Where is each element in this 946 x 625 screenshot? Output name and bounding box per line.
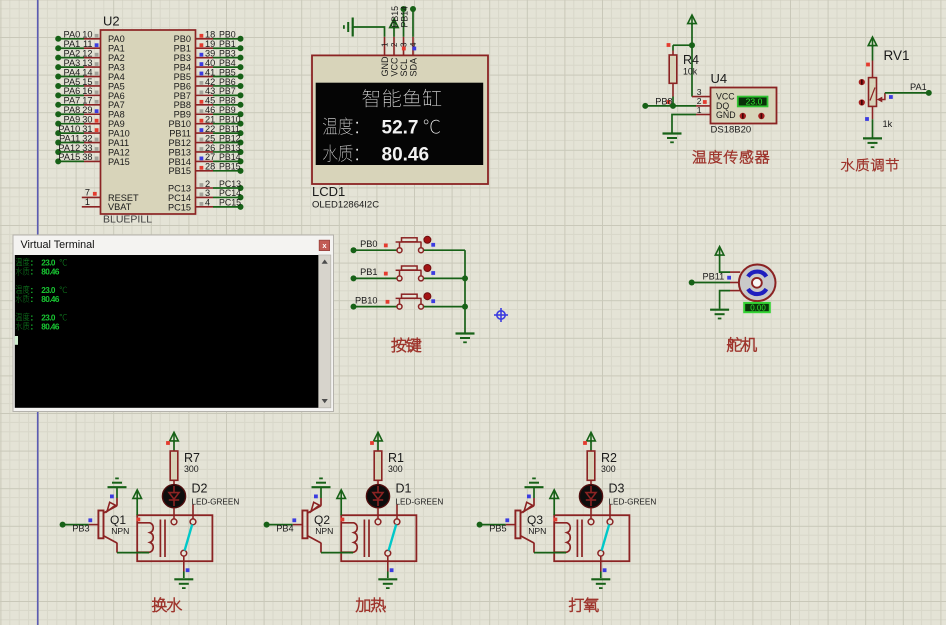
- U4 terminal blob 1: [740, 113, 746, 119]
- svg-text:PC15: PC15: [219, 198, 241, 208]
- state square (relay common): [390, 568, 394, 572]
- state square + pin number 46 + net label PB9: [200, 109, 204, 113]
- wire RV1 bottom to ground: [872, 106, 874, 119]
- wire servo pin3 to ground: [730, 290, 740, 292]
- state square + pin number 40 + net label PB4: [200, 62, 204, 66]
- relay box (打氧): [554, 515, 629, 561]
- pin stub PB8 pin 45: [196, 104, 214, 106]
- svg-text:U2: U2: [103, 14, 120, 29]
- pin VBAT (1) of U2: [82, 206, 101, 208]
- svg-text:PB1: PB1: [360, 267, 377, 277]
- state square pin4: [412, 47, 416, 51]
- svg-text:10k: 10k: [683, 67, 698, 77]
- state square + pin number 28 + net label PB15: [200, 166, 204, 170]
- state square + pin number 22 + net label PB11: [200, 128, 204, 132]
- ground (buttons): [456, 334, 475, 343]
- power +V arrow (temp sensor rail): [688, 15, 697, 24]
- ground (servo): [710, 310, 729, 319]
- svg-text:D2: D2: [192, 482, 208, 496]
- wire +V to R1: [377, 441, 379, 451]
- transistor Q3 collector (down): [521, 536, 535, 543]
- state square (relay coil top): [554, 518, 558, 522]
- U4 temperature display 23.0: [738, 97, 768, 107]
- relay contact circles: [375, 519, 381, 525]
- pin stub PB0 pin 18: [196, 38, 214, 40]
- svg-text:PB4: PB4: [276, 524, 293, 534]
- pin stub PB13 pin 26: [196, 151, 214, 153]
- LED D1 body: [366, 485, 389, 508]
- svg-text:23.0: 23.0: [41, 313, 56, 322]
- svg-text:LED-GREEN: LED-GREEN: [192, 497, 240, 506]
- wire net PB11 to servo pin2: [692, 282, 730, 284]
- power +V arrow at LCD pin2: [390, 19, 399, 28]
- power +V arrow (R1): [374, 432, 383, 441]
- state square (Q2 emitter net): [314, 495, 318, 499]
- pin stub PB12 pin 25: [196, 142, 214, 144]
- svg-text:PA1: PA1: [910, 82, 927, 92]
- wire collector to relay coil: [534, 552, 566, 554]
- pin stub PA9 pin 30: [84, 123, 101, 125]
- ground (temp sensor): [663, 134, 682, 143]
- wire net PB7 (right of U2): [213, 94, 241, 96]
- wire net PB5 to Q3 base: [480, 524, 506, 526]
- svg-text:23.0: 23.0: [41, 259, 56, 268]
- pin stub PC14 pin 3: [196, 196, 214, 198]
- pin stub PC15 pin 4: [196, 206, 214, 208]
- state square (PB4): [292, 518, 296, 522]
- pin stub PC13 pin 2: [196, 187, 214, 189]
- wire net PB12 (right of U2): [213, 142, 241, 144]
- svg-text:GND: GND: [716, 110, 736, 120]
- wire net PA1 from wiper: [885, 92, 929, 94]
- relay core bars: [159, 520, 161, 558]
- wire D1 to relay NO contact: [377, 508, 379, 519]
- wire net PB10 (right of U2): [213, 123, 241, 125]
- state square (PB8 net): [667, 100, 671, 104]
- state square pin3: [402, 47, 406, 51]
- svg-text:23.0: 23.0: [41, 286, 56, 295]
- wire net PB13 (right of U2): [213, 151, 241, 153]
- state square (RV1 top): [866, 63, 870, 67]
- state square (relay coil top): [137, 518, 141, 522]
- ground (RV1): [863, 138, 882, 147]
- relay box (加热): [341, 515, 416, 561]
- svg-text:1: 1: [697, 105, 702, 115]
- label 温度传感器: [693, 150, 769, 163]
- wire net PA9 (left of U2): [58, 123, 84, 125]
- state square + pin number 21 + net label PB10: [200, 119, 204, 123]
- push button PB1: actuator bar and cap: [396, 269, 422, 271]
- svg-text:PB5: PB5: [489, 524, 506, 534]
- wire net PB4 (right of U2): [213, 66, 241, 68]
- svg-text:RV1: RV1: [884, 48, 910, 63]
- state square (R7 top): [166, 441, 170, 445]
- terminal cursor: [15, 336, 18, 345]
- LED D3 body: [579, 485, 602, 508]
- svg-text:23.0: 23.0: [746, 96, 763, 106]
- pin stub PA0 pin 10: [84, 38, 101, 40]
- LED D2 body: [162, 485, 185, 508]
- state square (PB1): [384, 272, 388, 276]
- power +V arrow (servo): [715, 247, 724, 256]
- svg-text:38: 38: [82, 152, 92, 162]
- LCD line3 text 水质: 80.46: [323, 145, 358, 162]
- relay blade (cyan): [602, 524, 610, 550]
- svg-text:52.7: 52.7: [382, 117, 419, 138]
- transistor Q2 collector (down): [308, 536, 322, 543]
- relay blade (cyan): [389, 524, 397, 550]
- state square + pin number 43 + net label PB7: [200, 91, 204, 95]
- pin stub PB3 pin 39: [196, 57, 214, 59]
- svg-text:U4: U4: [711, 71, 728, 86]
- power +V arrow (RV1): [868, 37, 877, 46]
- wire net PB4 to Q2 base: [267, 524, 293, 526]
- push button PB0: contacts: [397, 248, 402, 253]
- wire net PB0 (right of U2): [213, 38, 241, 40]
- relay NC stub (up out of box): [609, 505, 611, 519]
- power +V arrow (relay coil): [133, 490, 142, 499]
- state square + pin number 2 + net label PC13: [200, 183, 204, 187]
- svg-text:R4: R4: [683, 53, 699, 67]
- wire R2 to D3: [590, 480, 592, 485]
- svg-text:NPN: NPN: [315, 526, 333, 536]
- pin stub PA6 pin 16: [84, 94, 101, 96]
- svg-text:300: 300: [601, 464, 616, 474]
- svg-text:D1: D1: [396, 482, 412, 496]
- node: junction bus/PB10: [462, 304, 468, 310]
- transistor Q1 collector (down): [104, 536, 118, 543]
- svg-text:80.46: 80.46: [382, 144, 430, 165]
- resistor R2 body: [587, 451, 595, 480]
- wire net PA5 (left of U2): [58, 85, 84, 87]
- state square + pin number 26 + net label PB13: [200, 147, 204, 151]
- pin stub PA8 pin 29: [84, 113, 101, 115]
- wire +V to servo pin1: [720, 255, 730, 272]
- pin stub PB10 pin 21: [196, 123, 214, 125]
- wire button bus (vertical): [464, 250, 466, 333]
- wire net PB1 to button: [354, 277, 398, 279]
- wire D3 to relay NO contact: [590, 508, 592, 519]
- ground (inverted, above Q1): [108, 478, 127, 487]
- state square + pin number 27 + net label PB14: [200, 157, 204, 161]
- pin stub PA10 pin 31: [84, 132, 101, 134]
- relay NC stub (up out of box): [396, 505, 398, 519]
- wire relay common to ground: [183, 556, 185, 571]
- Virtual Terminal screen (black): [15, 255, 319, 408]
- state square + pin number 41 + net label PB5: [200, 72, 204, 76]
- label 舵机: [727, 337, 756, 351]
- ground (inverted, above Q3): [525, 478, 544, 487]
- power +V arrow (R7): [170, 432, 179, 441]
- wire net PA15 (left of U2): [58, 160, 84, 162]
- ground (relay 换水): [174, 579, 193, 588]
- state square (button PB0 right): [431, 243, 435, 247]
- wire relay common to ground: [387, 556, 389, 571]
- relay coil: [137, 523, 153, 552]
- svg-text:PB14: PB14: [400, 6, 410, 28]
- label 水质调节: [841, 158, 898, 171]
- servo hub: [752, 278, 762, 288]
- wire net PB6 (right of U2): [213, 85, 241, 87]
- origin marker (blue crosshair): [494, 308, 508, 322]
- wire net PB14 (right of U2): [213, 160, 241, 162]
- svg-text:300: 300: [184, 464, 199, 474]
- resistor R7 body: [170, 451, 178, 480]
- label 换水: [152, 598, 181, 612]
- terminal text 温度: 23.0℃ (group 3): [16, 313, 30, 321]
- node: junction R4/DQ: [670, 103, 676, 109]
- potentiometer RV1 body: [869, 78, 877, 107]
- state square (PB11): [727, 276, 731, 280]
- node: junction bus/PB1: [462, 275, 468, 281]
- svg-text:PB15: PB15: [219, 162, 241, 172]
- pin stub PA12 pin 33: [84, 151, 101, 153]
- servo angle display 0.00: [744, 303, 770, 312]
- wire button PB10 to bus: [424, 306, 465, 308]
- wire net PB3 (right of U2): [213, 57, 241, 59]
- wire net PB1 (right of U2): [213, 47, 241, 49]
- wire net PB10 to button: [354, 306, 398, 308]
- state square + pin number 39 + net label PB3: [200, 53, 204, 57]
- svg-text:PA15: PA15: [58, 152, 80, 162]
- state square (PB0): [384, 244, 388, 248]
- state square + pin number 18 + net label PB0: [200, 34, 204, 38]
- svg-text:PB15: PB15: [390, 6, 400, 28]
- svg-text:PB8: PB8: [655, 96, 672, 106]
- transistor Q2 base bar: [302, 511, 307, 539]
- wire R1 to D1: [377, 480, 379, 485]
- state square (PB3): [88, 518, 92, 522]
- relay blade (cyan): [185, 524, 193, 550]
- svg-text:LED-GREEN: LED-GREEN: [396, 497, 444, 506]
- transistor Q1 emitter (up, with hollow arrow): [104, 506, 118, 513]
- wire net PA12 (left of U2): [58, 151, 84, 153]
- wire net PC15: [213, 206, 241, 208]
- pin stub PA15 pin 38: [84, 160, 101, 162]
- state square (R4 top): [667, 43, 671, 47]
- wire net PC14: [213, 196, 241, 198]
- pin stub PA2 pin 12: [84, 57, 101, 59]
- wire +V to R7: [173, 441, 175, 451]
- svg-text:LCD1: LCD1: [312, 184, 345, 199]
- pin stub PB7 pin 43: [196, 94, 214, 96]
- relay contact circles: [171, 519, 177, 525]
- state square + pin number 42 + net label PB6: [200, 81, 204, 85]
- svg-text:NPN: NPN: [528, 526, 546, 536]
- label 加热: [356, 598, 385, 612]
- svg-text:VBAT: VBAT: [108, 202, 132, 212]
- svg-text:80.46: 80.46: [41, 295, 60, 304]
- svg-text:80.46: 80.46: [41, 323, 60, 332]
- wire net PB5 (right of U2): [213, 76, 241, 78]
- svg-text:4: 4: [409, 42, 418, 47]
- wire +V to R2: [590, 441, 592, 451]
- power +V arrow (relay coil): [550, 490, 559, 499]
- transistor Q1 base bar: [98, 511, 103, 539]
- wire net PB8 (horizontal): [645, 105, 696, 107]
- terminal text 水质: 80.46 (group 3): [16, 322, 30, 330]
- relay core bars: [576, 520, 578, 558]
- Virtual Terminal window frame: [13, 235, 334, 412]
- node: junction dot at +V / R4: [689, 42, 695, 48]
- terminal text 温度: 23.0℃ (group 1): [16, 258, 30, 266]
- LCD line1 text 智能鱼缸: [363, 89, 442, 107]
- resistor R1 body: [374, 451, 382, 480]
- wire button PB0 to bus: [424, 249, 465, 251]
- pin stub PB15 pin 28: [196, 170, 214, 172]
- svg-text:GND: GND: [380, 56, 390, 77]
- wire R4 bottom to DQ net: [672, 83, 674, 96]
- wire relay common to ground: [600, 556, 602, 571]
- svg-text:3: 3: [400, 42, 409, 47]
- Virtual Terminal close button: [319, 240, 329, 250]
- wire net PB3 to Q1 base: [63, 524, 89, 526]
- U4 pin stub GND pin 1: [696, 114, 711, 116]
- wire net PA11 (left of U2): [58, 142, 84, 144]
- wire net PA8 (left of U2): [58, 113, 84, 115]
- RV1 wiper mark inside body: [870, 88, 875, 101]
- U4 pin stub VCC pin 3: [692, 96, 711, 98]
- svg-text:PB15: PB15: [169, 166, 191, 176]
- state square (RV1 bottom): [865, 117, 869, 121]
- state square + pin number 3 + net label PC14: [200, 193, 204, 197]
- U4 terminal blob 2: [758, 113, 764, 119]
- pin stub PB5 pin 41: [196, 76, 214, 78]
- terminal text 水质: 80.46 (group 1): [16, 267, 30, 275]
- label 打氧: [569, 598, 598, 612]
- svg-text:R7: R7: [184, 451, 200, 465]
- pin stub PB9 pin 46: [196, 113, 214, 115]
- wire net PA0 (left of U2): [58, 38, 84, 40]
- wire net PA7 (left of U2): [58, 104, 84, 106]
- state square (R1 top): [370, 441, 374, 445]
- svg-text:R1: R1: [388, 451, 404, 465]
- state square (button PB10 right): [431, 299, 435, 303]
- U4 pin stub DQ pin 2: [696, 105, 711, 107]
- svg-text:SCL: SCL: [399, 59, 409, 77]
- push button PB10: actuator bar and cap: [396, 297, 422, 299]
- wire net PB14 to LCD pin4 SDA: [412, 9, 414, 37]
- svg-text:VCC: VCC: [389, 57, 399, 77]
- state square (relay common): [603, 568, 607, 572]
- push button PB1: red actuate blob: [424, 265, 431, 272]
- servo rotor arcs (blue): [748, 272, 766, 277]
- relay NC stub (up out of box): [192, 505, 194, 519]
- state square + pin number 45 + net label PB8: [200, 100, 204, 104]
- label 按键: [392, 338, 421, 352]
- MCU U2 (BLUEPILL) body: [101, 30, 196, 214]
- svg-text:SDA: SDA: [408, 58, 418, 77]
- pin stub PA11 pin 32: [84, 142, 101, 144]
- state square (PA1 net): [889, 95, 893, 99]
- RV1 down adjust blob: [859, 99, 865, 105]
- wire from ground to LCD pin1: [353, 27, 385, 37]
- pin stub PA3 pin 13: [84, 66, 101, 68]
- wire net PB11 (right of U2): [213, 132, 241, 134]
- push button PB0: actuator bar and cap: [396, 241, 422, 243]
- state square (Q1 emitter net): [110, 495, 114, 499]
- terminal text 温度: 23.0℃ (group 2): [16, 285, 30, 293]
- svg-text:PB0: PB0: [360, 239, 377, 249]
- LCD line2 text 温度: 52.7℃: [323, 117, 358, 134]
- wire net PA3 (left of U2): [58, 66, 84, 68]
- push button PB1: contacts: [397, 276, 402, 281]
- state square (DQ pin): [703, 100, 707, 104]
- transistor Q2 emitter (up, with hollow arrow): [308, 506, 322, 513]
- svg-text:2: 2: [390, 42, 399, 47]
- relay coil: [554, 523, 570, 552]
- svg-text:NPN: NPN: [111, 526, 129, 536]
- svg-text:4: 4: [205, 198, 210, 208]
- wire U4 GND to ground: [672, 115, 696, 133]
- power +V arrow (R2): [587, 432, 596, 441]
- svg-text:D3: D3: [609, 482, 625, 496]
- state square (PB5): [505, 518, 509, 522]
- transistor Q3 base bar: [515, 511, 520, 539]
- svg-text:BLUEPILL: BLUEPILL: [103, 214, 152, 226]
- sheet border (blue): [37, 0, 39, 625]
- state square + pin number 4 + net label PC15: [200, 202, 204, 206]
- svg-text::: :: [30, 294, 33, 304]
- wire D2 to relay NO contact: [173, 508, 175, 519]
- ground (relay 打氧): [591, 579, 610, 588]
- wire net PC13: [213, 187, 241, 189]
- pin stub PB14 pin 27: [196, 160, 214, 162]
- power +V arrow (relay coil): [337, 490, 346, 499]
- wire net PA1 (left of U2): [58, 47, 84, 49]
- wire R7 to D2: [173, 480, 175, 485]
- relay coil: [341, 523, 357, 552]
- wire net PB8 (right of U2): [213, 104, 241, 106]
- state square (relay common): [186, 568, 190, 572]
- LCD screen (black): [316, 83, 484, 165]
- RV1 wiper arrow: [877, 97, 883, 103]
- LCD pin stubs 1-4: [384, 37, 386, 56]
- svg-text:0.00: 0.00: [750, 303, 766, 312]
- servo motor body: [739, 265, 776, 302]
- relay contact circles: [588, 519, 594, 525]
- wire net PB9 (right of U2): [213, 113, 241, 115]
- pin stub PB1 pin 19: [196, 47, 214, 49]
- pin stub PA4 pin 14: [84, 76, 101, 78]
- wire net PA4 (left of U2): [58, 76, 84, 78]
- pin stub PA5 pin 15: [84, 85, 101, 87]
- svg-text::: :: [30, 322, 33, 332]
- svg-text:28: 28: [205, 162, 215, 172]
- svg-text:PA15: PA15: [108, 157, 130, 167]
- state square (button PB1 right): [431, 271, 435, 275]
- push button PB0: red actuate blob: [424, 236, 431, 243]
- pin stub PA1 pin 11: [84, 47, 101, 49]
- svg-text:PB10: PB10: [355, 295, 377, 305]
- wire button PB1 to bus: [424, 277, 465, 279]
- svg-text:1k: 1k: [883, 119, 893, 129]
- svg-text:PB3: PB3: [72, 524, 89, 534]
- svg-text:Virtual Terminal: Virtual Terminal: [21, 239, 95, 251]
- U4 DS18B20 body: [711, 88, 777, 124]
- svg-text:PB11: PB11: [703, 272, 725, 282]
- ground (relay 加热): [378, 579, 397, 588]
- ground (sideways) at LCD pin1: [344, 18, 353, 37]
- state square (relay coil top): [341, 518, 345, 522]
- state square + pin number 19 + net label PB1: [200, 43, 204, 47]
- relay box (换水): [137, 515, 212, 561]
- wire from node to R4 top: [673, 44, 692, 46]
- wire +V down to U4 VCC: [691, 24, 693, 97]
- ground (inverted, above Q2): [312, 478, 331, 487]
- pin RESET (7) of U2: [82, 196, 101, 198]
- svg-text:80.46: 80.46: [41, 268, 60, 277]
